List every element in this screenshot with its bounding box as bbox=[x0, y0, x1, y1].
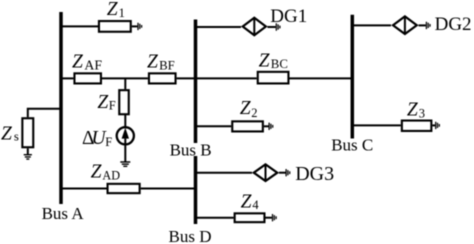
wire bus D to DG3 bbox=[196, 172, 253, 174]
wire Z4 to ground bbox=[266, 217, 272, 219]
svg-text:3: 3 bbox=[419, 107, 425, 121]
ground below dUF bbox=[120, 162, 130, 166]
label dUF bbox=[82, 128, 112, 149]
svg-text:Bus B: Bus B bbox=[170, 141, 212, 160]
generator DG1 bbox=[243, 18, 266, 36]
svg-text:F: F bbox=[105, 135, 112, 149]
wire ZAF to ZBF bbox=[102, 77, 148, 79]
svg-text:Bus A: Bus A bbox=[42, 204, 85, 223]
svg-text:BC: BC bbox=[271, 57, 288, 71]
wire Z1 to ground bbox=[132, 25, 138, 27]
label Z1 bbox=[107, 0, 125, 20]
ground right of Z4 bbox=[273, 214, 277, 221]
svg-text:Z: Z bbox=[407, 99, 418, 120]
wire Z2 to ground bbox=[264, 125, 269, 127]
generator DG3 bbox=[254, 164, 277, 181]
bus C bbox=[351, 15, 355, 139]
svg-text:Z: Z bbox=[91, 162, 102, 183]
svg-text:DG2: DG2 bbox=[435, 14, 472, 35]
impedance Z1 bbox=[99, 21, 131, 32]
wire bus D to Z4 bbox=[196, 217, 234, 219]
wire bus A to ZAF bbox=[61, 77, 73, 79]
impedance Z3 bbox=[402, 121, 432, 131]
svg-text:F: F bbox=[109, 99, 116, 113]
svg-text:4: 4 bbox=[252, 198, 259, 212]
fault voltage source dUF bbox=[117, 127, 134, 144]
svg-text:1: 1 bbox=[119, 6, 125, 20]
impedance ZBF bbox=[149, 73, 176, 83]
wire ZBF to bus B bbox=[177, 77, 196, 79]
svg-text:s: s bbox=[14, 129, 19, 143]
wire DG2 to ground bbox=[419, 24, 426, 26]
svg-text:Z: Z bbox=[240, 98, 251, 119]
wire Z3 to ground bbox=[432, 124, 435, 126]
wire ZBC to bus C bbox=[290, 77, 353, 79]
svg-text:2: 2 bbox=[251, 106, 257, 120]
bus B bbox=[194, 20, 198, 144]
wire bus C to DG2 bbox=[352, 24, 391, 26]
label Z2 bbox=[240, 98, 258, 120]
generator DG2 bbox=[393, 16, 417, 34]
wire DG3 to ground bbox=[279, 172, 286, 174]
impedance ZBC bbox=[258, 72, 289, 84]
ground right of Z1 bbox=[138, 23, 142, 30]
impedance ZF bbox=[119, 90, 129, 114]
ground right of DG2 bbox=[426, 22, 430, 29]
svg-text:Bus C: Bus C bbox=[331, 136, 373, 155]
impedance Zs bbox=[22, 118, 33, 147]
impedance Z2 bbox=[232, 121, 263, 131]
svg-text:DG3: DG3 bbox=[295, 163, 334, 185]
wire bus C to Z3 bbox=[352, 124, 401, 126]
wire Zs bottom to ground bbox=[27, 148, 29, 154]
ground right of Z2 bbox=[269, 123, 273, 130]
svg-text:AF: AF bbox=[84, 57, 102, 72]
wire bus B to DG1 bbox=[196, 26, 242, 28]
wire bus A to ZAD bbox=[61, 188, 107, 190]
svg-text:Z: Z bbox=[1, 123, 12, 144]
label Zs bbox=[1, 123, 19, 144]
arrow inside source bbox=[122, 128, 129, 145]
ground right of DG3 bbox=[286, 169, 290, 176]
wire ZF to source bbox=[124, 115, 126, 127]
ground right of Z3 bbox=[436, 122, 440, 129]
impedance ZAD bbox=[108, 184, 140, 193]
svg-text:Z: Z bbox=[97, 92, 108, 113]
svg-text:Z: Z bbox=[107, 0, 118, 20]
ground below Zs bbox=[24, 155, 32, 159]
svg-text:Bus D: Bus D bbox=[169, 227, 212, 244]
wire source to ground bbox=[124, 145, 126, 162]
bus A bbox=[59, 12, 63, 204]
label Z4 bbox=[241, 192, 260, 213]
impedance ZAF bbox=[74, 73, 101, 83]
label Z3 bbox=[407, 99, 425, 120]
wire bus B to Z2 bbox=[196, 125, 232, 127]
svg-text:Z: Z bbox=[241, 192, 252, 213]
wire ZAD to bus D bbox=[141, 188, 196, 190]
label ZF bbox=[97, 92, 115, 113]
label ZAD bbox=[91, 162, 121, 183]
svg-text:BF: BF bbox=[159, 58, 175, 72]
bus D bbox=[194, 156, 198, 224]
label ZAF bbox=[72, 51, 102, 72]
wire DG1 to ground bbox=[268, 26, 276, 28]
wire fault node F down to ZF bbox=[124, 78, 126, 89]
label ZBF bbox=[147, 51, 175, 72]
ground right of DG1 bbox=[276, 23, 280, 30]
label ZBC bbox=[259, 51, 288, 72]
wire bus B to ZBC bbox=[196, 77, 257, 79]
svg-text:DG1: DG1 bbox=[270, 6, 307, 27]
svg-text:Z: Z bbox=[147, 51, 158, 72]
svg-text:AD: AD bbox=[102, 169, 120, 183]
wire Zs top to bus A bbox=[28, 109, 62, 118]
svg-text:Z: Z bbox=[72, 51, 83, 72]
svg-text:Z: Z bbox=[259, 51, 270, 72]
impedance Z4 bbox=[235, 213, 265, 222]
wire bus A to Z1 bbox=[61, 25, 98, 27]
